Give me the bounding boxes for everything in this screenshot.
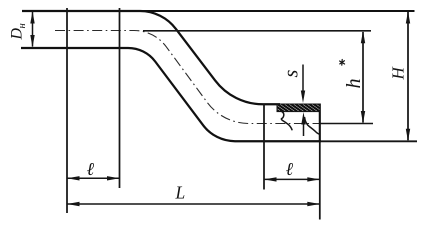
dimension l (left) — [67, 176, 120, 180]
dimension D_H — [30, 11, 34, 48]
extension line x=320 (below pipe) — [319, 142, 321, 220]
break line left — [280, 111, 292, 131]
dimension L — [67, 202, 320, 206]
extension line x=119.5 — [119, 8, 121, 188]
extension line x=264 — [263, 104, 265, 190]
svg-text:h: h — [343, 79, 365, 89]
dimension s lower arrow — [301, 112, 305, 136]
h* lower reference line — [320, 123, 373, 125]
dimension h* — [361, 31, 365, 124]
h* upper reference line — [143, 30, 371, 32]
hatched wall strip (section) — [277, 104, 320, 112]
svg-text:s: s — [281, 70, 303, 78]
dimension s upper arrow — [301, 65, 305, 104]
pipe bottom outline — [21, 48, 321, 141]
break line right (inner bell curve) — [305, 117, 320, 134]
svg-text:ℓ: ℓ — [87, 159, 95, 179]
svg-text:L: L — [175, 183, 186, 203]
pipe top outline — [22, 11, 280, 104]
dimension H — [406, 11, 410, 141]
pipe end vertical edge — [319, 104, 321, 142]
H bottom extension line — [321, 140, 417, 142]
pipe centerline — [55, 30, 319, 123]
dimension l (right) — [264, 177, 320, 181]
extension line x=67 — [66, 8, 68, 213]
svg-text:H: H — [389, 66, 408, 81]
svg-text:ℓ: ℓ — [286, 159, 294, 179]
H top extension line — [140, 10, 415, 12]
